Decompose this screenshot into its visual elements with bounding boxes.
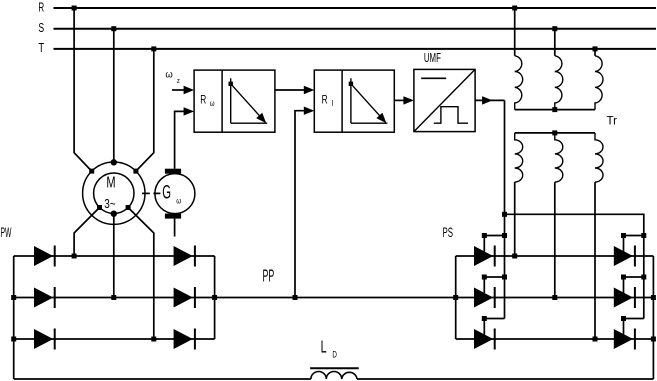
svg-text:PP: PP <box>263 265 275 285</box>
thyristor V9 PS-left row3 <box>474 329 493 349</box>
block Rw graph start dot <box>229 82 233 86</box>
diode V3 PW row3 left <box>34 329 53 349</box>
svg-text:ω: ω <box>210 99 215 108</box>
diode V5 cathode bar <box>194 287 196 308</box>
node PW row1 motor tap <box>72 254 77 259</box>
wire gate distribution to right bridge <box>505 214 644 318</box>
wire T to motor <box>136 49 154 171</box>
wire phase S bus <box>54 28 657 30</box>
thyristor V11 gate hook <box>624 277 644 293</box>
svg-text:UMF: UMF <box>424 50 441 65</box>
node PS right bus row3 <box>651 337 656 342</box>
wire primary star connector <box>515 109 595 111</box>
inductor LD winding <box>311 372 357 380</box>
node primary star point <box>552 107 557 112</box>
node R tap to transformer <box>512 6 517 11</box>
block RI graph ramp arrowhead <box>376 113 386 124</box>
wire gate main drop <box>504 100 506 318</box>
svg-text:PW: PW <box>1 224 12 240</box>
node V11 gate right <box>641 275 646 280</box>
motor terminal bottom-left <box>97 205 102 210</box>
wire tacho output to Rw input <box>175 111 185 168</box>
wire secondary star connector <box>515 132 595 134</box>
wire current feedback from PP to RI <box>295 111 305 298</box>
thyristor V8 cathode bar <box>494 287 496 308</box>
transformer Tr secondary coil 3 <box>595 133 603 182</box>
block UMF diagonal <box>414 69 475 131</box>
tacho G bottom brush <box>165 214 181 219</box>
wire secondary phase 1 down <box>514 182 516 256</box>
inductor LD core bar <box>310 367 359 369</box>
thyristor V9 gate hook <box>484 319 504 335</box>
node PS left bus row2 <box>453 295 458 300</box>
node T tap to motor <box>151 46 156 51</box>
wire phase T bus <box>54 48 657 50</box>
motor terminal top-right <box>133 169 138 174</box>
wire R to motor <box>74 8 92 171</box>
thyristor V7 PS-left row1 <box>474 246 493 266</box>
thyristor V7 gate hook <box>484 236 504 252</box>
node PW row2 motor tap <box>111 295 116 300</box>
svg-text:M: M <box>106 175 115 192</box>
svg-text:G: G <box>162 183 171 204</box>
wire PW/PP/PS row2 <box>14 297 654 299</box>
thyristor V11 cathode bar <box>634 287 636 308</box>
wire PS right bus <box>652 256 654 379</box>
node S tap to motor <box>111 26 116 31</box>
thyristor V12 cathode bar <box>634 329 636 350</box>
node gate distribution junction <box>502 212 507 217</box>
thyristor V12 gate hook <box>624 319 644 335</box>
thyristor V8 gate hook <box>484 277 504 293</box>
svg-text:I: I <box>332 99 334 108</box>
diode V4 cathode bar <box>194 246 196 267</box>
thyristor V8 PS-left row2 <box>474 288 493 308</box>
wire PW right bus <box>214 256 216 339</box>
node V11 gate left <box>621 275 626 280</box>
block Rw graph ramp <box>231 84 260 117</box>
wire tacho bottom stub <box>174 219 176 237</box>
wire PW left bus <box>13 256 15 379</box>
node PS right bus row2 <box>651 295 656 300</box>
block Rw graph ramp arrowhead <box>256 113 266 124</box>
wire PW row1 <box>14 255 215 257</box>
thyristor V12 PS-right row3 <box>614 329 633 349</box>
wire PS row1 <box>456 255 654 257</box>
thyristor V9 cathode bar <box>494 329 496 350</box>
block RI divider <box>341 70 343 132</box>
node PW right bus row2 <box>212 295 217 300</box>
wire motor phase2 to PW row2 <box>113 213 115 297</box>
block Rw graph horizontal axis <box>231 122 268 124</box>
block RI graph start dot <box>349 82 353 86</box>
node secondary star point <box>552 130 557 135</box>
wire bottom return right <box>357 378 653 380</box>
block RI graph vertical axis <box>350 78 352 123</box>
node PS row1 phase tap <box>512 254 517 259</box>
wire omega-z input <box>172 89 185 91</box>
svg-text:R: R <box>200 92 206 106</box>
wire S to motor <box>113 29 115 162</box>
block UMF top bar <box>421 77 446 79</box>
block Rw divider <box>221 70 223 132</box>
block RI graph horizontal axis <box>351 122 388 124</box>
diode V4 PW row1 right <box>174 246 193 266</box>
node V8 gate right <box>502 275 507 280</box>
arrow RI output into UMF <box>403 96 414 104</box>
diode V2 cathode bar <box>54 287 56 308</box>
motor terminal bottom-right <box>126 205 131 210</box>
motor M1 outer circle <box>83 162 145 224</box>
svg-text:Tr: Tr <box>607 116 618 128</box>
block RI graph ramp <box>351 84 380 117</box>
wire UMF output <box>475 99 504 101</box>
block Rw graph vertical axis <box>230 78 232 123</box>
shaft segment 2 <box>153 192 160 194</box>
node V10 gate right <box>641 233 646 238</box>
thyristor V10 gate hook <box>624 236 644 252</box>
transformer Tr primary coil 1 <box>515 56 523 110</box>
node R tap to motor <box>72 6 77 11</box>
op block speed controller Rw box <box>194 70 275 132</box>
node V8 gate left <box>482 275 487 280</box>
arrow omega-z into Rw <box>184 86 195 94</box>
transformer Tr secondary coil 2 <box>555 133 563 182</box>
node V7 gate left <box>482 233 487 238</box>
node PS row2 phase tap <box>552 295 557 300</box>
node V12 gate left <box>621 316 626 321</box>
node PW row3 motor tap <box>151 337 156 342</box>
transformer Tr secondary coil 1 <box>515 133 523 182</box>
diode V6 cathode bar <box>194 329 196 350</box>
transformer Tr primary coil 3 <box>595 56 603 110</box>
node PW left bus row2 <box>11 295 16 300</box>
node PP junction <box>293 295 298 300</box>
thyristor V11 PS-right row2 <box>614 288 633 308</box>
motor terminal top-left <box>89 169 94 174</box>
svg-text:ω: ω <box>165 70 173 81</box>
arrow Rw output into RI <box>304 86 315 94</box>
svg-text:L: L <box>321 337 327 357</box>
svg-text:R: R <box>322 92 328 106</box>
svg-text:PS: PS <box>443 224 454 240</box>
wire PS row3 <box>456 338 654 340</box>
wire phase R bus <box>54 7 657 9</box>
shaft motor to tacho (dashed) <box>142 192 150 194</box>
svg-text:3~: 3~ <box>104 197 115 211</box>
tacho generator G circle <box>155 174 195 214</box>
wire motor phase3 to PW row3 <box>128 208 154 340</box>
wire secondary phase 2 down <box>554 182 556 297</box>
diode V6 PW row3 right <box>174 329 193 349</box>
wire bottom return left <box>14 378 311 380</box>
wire motor phase1 to PW row1 <box>74 208 99 257</box>
diode V3 cathode bar <box>54 329 56 350</box>
wire Rw output to RI <box>275 89 305 91</box>
node V9 gate left <box>482 316 487 321</box>
op block current controller RI box <box>314 70 394 132</box>
svg-text:S: S <box>38 21 44 35</box>
block UMF pulse symbol <box>434 107 468 124</box>
diode V2 PW row2 left <box>34 288 53 308</box>
thyristor V7 cathode bar <box>494 246 496 267</box>
wire PS left bus <box>455 256 457 339</box>
arrow current feedback into RI <box>304 107 315 115</box>
node V10 gate left <box>621 233 626 238</box>
wire RI output to UMF <box>394 99 404 101</box>
svg-text:R: R <box>38 1 44 15</box>
tacho G top brush <box>165 169 181 174</box>
node S tap to transformer <box>552 26 557 31</box>
node PW left bus row3 <box>11 337 16 342</box>
wire T to primary coil 3 <box>594 49 596 56</box>
node T tap to transformer <box>593 46 598 51</box>
diode V1 PW row1 left <box>34 246 53 266</box>
svg-text:D: D <box>332 350 337 361</box>
wire PW row3 <box>14 338 215 340</box>
diode V5 PW row2 right <box>174 288 193 308</box>
firing unit UMF box <box>414 69 475 131</box>
svg-text:ω: ω <box>176 196 181 206</box>
motor terminal top <box>111 159 117 165</box>
transformer Tr primary coil 2 <box>555 56 563 110</box>
thyristor V10 cathode bar <box>634 246 636 267</box>
wire S to primary coil 2 <box>554 29 556 56</box>
svg-text:z: z <box>177 78 180 85</box>
wire R to primary coil 1 <box>514 8 516 56</box>
arrow UMF output <box>482 96 493 104</box>
motor terminal bottom <box>111 211 117 217</box>
motor M1 inner circle <box>94 173 134 213</box>
arrow tacho feedback into Rw <box>184 107 195 115</box>
wire secondary phase 3 down <box>594 182 596 339</box>
svg-text:T: T <box>38 41 44 55</box>
thyristor V10 PS-right row1 <box>614 246 633 266</box>
node V7 gate right <box>502 233 507 238</box>
diode V1 cathode bar <box>54 246 56 267</box>
node PS row3 phase tap <box>593 337 598 342</box>
